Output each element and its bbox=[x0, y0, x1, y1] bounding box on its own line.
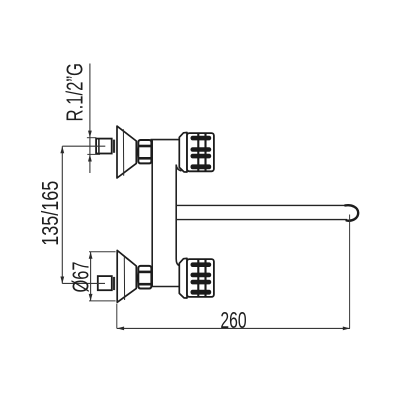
top handle skirt bbox=[179, 133, 187, 173]
bottom handle skirt bbox=[179, 258, 187, 298]
bottom inlet nipple bbox=[98, 276, 112, 290]
spout end cap / aerator bbox=[345, 205, 358, 221]
bottom eccentric collar bbox=[113, 277, 115, 290]
label O67 bbox=[68, 262, 94, 293]
top valve body top edge bbox=[151, 139, 181, 141]
R1/2 extension ticks on nipple bbox=[87, 138, 100, 155]
R.1/2"G leader line with arrows bbox=[88, 64, 92, 174]
135/165 dimension line bbox=[60, 146, 64, 283]
top inlet nipple R1/2 bbox=[96, 139, 112, 154]
body column between valves bbox=[152, 140, 181, 287]
svg-text:135/165: 135/165 bbox=[37, 181, 63, 246]
bottom handle cap bbox=[187, 259, 214, 297]
svg-text:Ø67: Ø67 bbox=[68, 262, 94, 293]
O67 dimension line bbox=[89, 252, 93, 301]
top escutcheon bell bbox=[117, 126, 136, 178]
bottom handle facet lines bbox=[198, 259, 205, 297]
O67 extension lines bbox=[89, 252, 116, 301]
top handle ribs bbox=[191, 136, 212, 169]
135/165 extension lines (inlet centerlines) bbox=[62, 146, 105, 283]
top handle facet lines bbox=[198, 133, 205, 172]
bottom escutcheon bell bbox=[117, 250, 136, 302]
top hex nut bbox=[138, 140, 153, 163]
bottom hex nut bbox=[138, 266, 153, 289]
bottom valve body bottom edge bbox=[151, 286, 181, 288]
spout tube bbox=[176, 205, 347, 219]
svg-text:260: 260 bbox=[220, 307, 246, 333]
260 extension lines bbox=[117, 215, 350, 329]
top handle cap bbox=[187, 133, 214, 171]
top eccentric collar bbox=[113, 140, 115, 153]
260 dimension line bbox=[117, 327, 350, 331]
label 135/165 bbox=[37, 181, 63, 246]
bottom handle ribs bbox=[191, 262, 212, 294]
svg-text:R.1/2”G: R.1/2”G bbox=[61, 63, 87, 122]
label R.1/2"G bbox=[61, 63, 87, 122]
